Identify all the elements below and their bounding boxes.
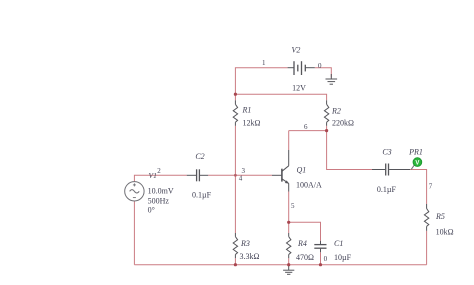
wire: node6 down and right to C3 [327, 131, 372, 170]
ground (below R4 at bottom rail) [283, 265, 294, 275]
wire: row2 from left column to R2 column [235, 94, 326, 100]
svg-text:V: V [415, 161, 419, 167]
junction node 6 [325, 129, 328, 132]
resistor R1 [233, 100, 237, 126]
svg-text:0.1µF: 0.1µF [192, 191, 212, 200]
svg-text:100A/A: 100A/A [296, 180, 322, 189]
wire: emitter vertical to node5 junction [288, 192, 290, 223]
svg-text:R5: R5 [435, 212, 445, 221]
svg-text:4: 4 [239, 175, 243, 183]
resistor R4 [287, 233, 291, 258]
wire: R4 bottom stub [288, 258, 290, 265]
wire: V1 bottom to bottom rail [133, 201, 135, 265]
wire: left column R1 top stub [234, 94, 236, 100]
svg-text:0.1µF: 0.1µF [377, 185, 397, 194]
wire: C3/probe to right column [410, 170, 427, 205]
wire: base row V1 to C2 [134, 175, 186, 182]
svg-text:0°: 0° [148, 206, 155, 215]
wire: collector vertical (pink part) [288, 131, 290, 150]
wire: R2 bottom to node6 junction [326, 126, 328, 131]
wire: bottom rail [134, 264, 426, 266]
junction node 5 [287, 221, 290, 224]
svg-text:10kΩ: 10kΩ [436, 228, 454, 237]
svg-text:470Ω: 470Ω [296, 253, 314, 262]
probe PR1 [411, 158, 422, 170]
wire: C1 bottom to bottom rail [320, 252, 322, 265]
svg-text:PR1: PR1 [408, 148, 423, 157]
svg-text:10µF: 10µF [334, 253, 352, 262]
svg-text:500Hz: 500Hz [148, 197, 170, 206]
svg-text:0: 0 [318, 62, 322, 70]
svg-text:5: 5 [291, 202, 295, 210]
svg-text:R3: R3 [240, 239, 250, 248]
svg-text:2: 2 [157, 167, 161, 175]
junction node row2/left column [234, 93, 237, 96]
svg-text:1: 1 [262, 59, 266, 67]
svg-text:R2: R2 [331, 107, 341, 116]
wire: R4 top stub [288, 222, 290, 233]
svg-text:6: 6 [304, 123, 308, 131]
junction node base (3/4) [234, 174, 237, 177]
transistor Q1 [272, 150, 289, 192]
svg-text:R4: R4 [297, 239, 307, 248]
svg-text:C2: C2 [195, 152, 204, 161]
svg-text:V1: V1 [149, 171, 157, 180]
wire: emitter junction to C1 top [289, 222, 321, 241]
battery V2 [288, 61, 315, 75]
svg-text:12kΩ: 12kΩ [243, 119, 261, 128]
source V1 [125, 182, 144, 201]
capacitor C3 [372, 164, 410, 176]
resistor R2 [324, 100, 328, 126]
wire: left column above R1 handled above; below R1 to base row [234, 126, 236, 176]
svg-text:Q1: Q1 [297, 166, 307, 175]
wire: battery right to ground corner [315, 68, 332, 78]
capacitor C2 [187, 169, 209, 181]
svg-text:10.0mV: 10.0mV [148, 186, 174, 195]
svg-text:7: 7 [429, 183, 433, 191]
wire: R3 top stub from base row [234, 175, 236, 233]
wire: R3 bottom stub [234, 258, 236, 265]
svg-text:220kΩ: 220kΩ [332, 119, 354, 128]
wire: base row C2 to Q1 base [208, 174, 272, 176]
junction R4/ground bottom [287, 263, 290, 266]
resistor R3 [233, 233, 237, 258]
resistor R5 [424, 204, 428, 231]
junction R3 bottom [234, 263, 237, 266]
svg-text:C3: C3 [382, 148, 391, 157]
ground (battery right) [326, 74, 338, 84]
svg-text:V2: V2 [292, 46, 301, 55]
wire: battery left to top-left corner [235, 68, 287, 95]
svg-text:R1: R1 [242, 106, 252, 115]
svg-text:C1: C1 [334, 239, 343, 248]
junction C1 bottom [319, 263, 322, 266]
svg-text:12V: 12V [292, 84, 306, 93]
wire: right column below R5 to bottom [426, 231, 428, 265]
svg-text:0: 0 [324, 255, 328, 263]
wire: collector row (Q1 collector to R2 column) [289, 130, 327, 132]
svg-text:3.3kΩ: 3.3kΩ [240, 252, 260, 261]
capacitor C1 [314, 241, 326, 252]
